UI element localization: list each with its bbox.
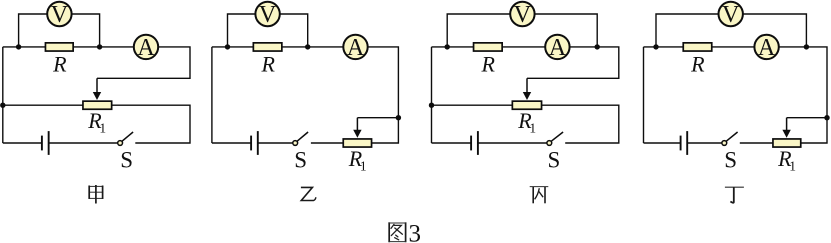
circuit 丁: battery: [681, 131, 688, 155]
circuit 甲: node - V right junction: [97, 44, 102, 49]
circuit 甲: battery: [42, 131, 49, 155]
circuit 丙: rheostat R1: [512, 101, 541, 135]
circuit 乙: wire - resistor row: [212, 46, 343, 48]
svg-text:S: S: [548, 148, 561, 173]
circuit 丁: ammeter A: [754, 35, 778, 61]
svg-text:V: V: [514, 2, 532, 28]
circuit 丙: ammeter A: [545, 35, 569, 61]
circuit 乙: ammeter A: [343, 35, 367, 61]
circuit 丁: rheostat wiper arrow: [782, 118, 790, 138]
circuit 乙: node - wiper tap junction: [396, 115, 401, 120]
circuit 丙: node - V right junction: [595, 44, 600, 49]
circuit 乙: voltmeter V: [255, 2, 279, 28]
circuit 丙: node - V left junction: [445, 44, 450, 49]
svg-text:A: A: [137, 35, 155, 61]
circuit 甲: voltmeter V: [47, 2, 71, 28]
circuit 甲: node - rheostat row left: [0, 103, 5, 108]
circuit 甲: wire - voltmeter right lead: [71, 14, 99, 47]
caption 图3: [388, 220, 421, 243]
circuit 丁: resistor R: [683, 43, 712, 76]
svg-text:1: 1: [99, 120, 106, 135]
circuit 丙: node - rheostat row left: [429, 103, 434, 108]
circuit 丙: wire - rheostat row right: [542, 105, 619, 143]
circuit 丁: switch S: [722, 132, 738, 173]
circuit 甲: rheostat wiper arrow: [93, 78, 101, 100]
circuit 乙: wire - voltmeter left lead: [228, 14, 257, 47]
circuit 丁: wire - switch to rheostat: [740, 142, 773, 144]
circuit 乙: wire - battery to switch: [258, 142, 293, 144]
circuit 乙: switch S: [293, 132, 308, 173]
circuit 丁: label 丁: [725, 187, 744, 203]
circuit 丙: wire - left vertical: [431, 47, 433, 143]
circuit 甲: wire - resistor row: [3, 46, 133, 48]
circuit 甲: switch S: [118, 132, 133, 173]
circuit 丁: wire - wiper tap: [787, 117, 827, 119]
circuit 甲: wire - rheostat row left: [3, 104, 83, 106]
circuit 乙: rheostat wiper arrow: [353, 118, 361, 138]
svg-text:R: R: [260, 51, 275, 76]
svg-text:S: S: [724, 148, 737, 173]
circuit 丁: wire - row right vertical: [779, 47, 827, 143]
circuit 丁: node - wiper tap junction: [824, 115, 829, 120]
circuit 丙: wire - row right to wiper: [527, 47, 619, 78]
circuit 甲: ammeter A: [134, 35, 158, 61]
circuit 甲: wire - voltmeter left lead: [19, 14, 48, 47]
svg-text:V: V: [51, 2, 69, 28]
circuit 甲: wire - ammeter to wiper (right top): [97, 47, 190, 78]
circuit 乙: rheostat R1: [343, 139, 371, 173]
circuit 甲: wire - bottom left: [3, 142, 42, 144]
circuit 乙: node - V right junction: [305, 44, 310, 49]
circuit 乙: wire - switch to rheostat: [311, 142, 343, 144]
circuit 丁: wire - voltmeter left lead: [656, 14, 719, 47]
circuit 丁: voltmeter V: [719, 2, 743, 28]
circuit 乙: wire - ammeter to right vertical: [368, 47, 398, 143]
circuit 乙: label 乙: [301, 187, 316, 200]
circuit 乙: wire - left vertical: [211, 47, 213, 143]
circuit 甲: label 甲: [89, 185, 104, 204]
circuit 丁: wire - voltmeter right lead: [743, 14, 807, 47]
circuit 丙: wire - bottom left: [432, 142, 472, 144]
svg-text:R: R: [690, 51, 705, 76]
svg-text:1: 1: [789, 158, 796, 173]
svg-text:1: 1: [360, 158, 367, 173]
circuit 丁: node - V right junction: [804, 44, 809, 49]
svg-text:S: S: [294, 148, 307, 173]
svg-text:V: V: [259, 2, 277, 28]
circuit 丙: wire - resistor row: [432, 46, 545, 48]
circuit 乙: wire - voltmeter right lead: [280, 14, 308, 47]
circuit 丙: rheostat wiper arrow: [523, 78, 531, 100]
svg-text:1: 1: [529, 120, 536, 135]
svg-text:V: V: [722, 2, 740, 28]
circuit 丁: wire - resistor row: [644, 46, 754, 48]
circuit 丙: wire - voltmeter left lead: [447, 14, 511, 47]
circuit 乙: wire - wiper tap: [357, 117, 398, 119]
circuit 甲: node - V left junction: [16, 44, 21, 49]
circuit 甲: rheostat R1: [83, 101, 112, 135]
circuit 丁: wire - bottom left: [644, 142, 681, 144]
svg-text:R: R: [480, 51, 495, 76]
svg-text:S: S: [120, 148, 133, 173]
circuit 丁: node - V left junction: [653, 44, 658, 49]
svg-text:R: R: [52, 51, 67, 76]
circuit 丙: wire - voltmeter right lead: [534, 14, 597, 47]
circuit 乙: wire - bottom left: [212, 142, 251, 144]
circuit 乙: battery: [251, 131, 258, 155]
circuit 丙: wire - battery to switch: [478, 142, 547, 144]
circuit 丙: switch S: [547, 132, 563, 173]
circuit 乙: node - V left junction: [225, 44, 230, 49]
circuit 丙: label 丙: [530, 187, 549, 204]
circuit 乙: resistor R: [253, 43, 282, 76]
circuit 丁: rheostat R1: [773, 139, 801, 173]
svg-text:3: 3: [409, 220, 422, 243]
circuit 丙: wire - rheostat row left: [432, 104, 512, 106]
circuit 丁: wire - battery to switch: [687, 142, 722, 144]
circuit 甲: wire - rheostat row right: [112, 105, 190, 143]
circuit 丙: resistor R: [474, 43, 503, 76]
circuit 甲: wire - battery to switch: [49, 142, 118, 144]
circuit 丁: wire - left vertical: [643, 47, 645, 143]
circuit 丙: voltmeter V: [510, 2, 534, 28]
svg-text:A: A: [549, 35, 567, 61]
circuit 甲: resistor R: [45, 43, 73, 76]
circuit 甲: wire - left vertical: [2, 47, 4, 143]
svg-text:A: A: [758, 35, 776, 61]
circuit 丙: battery: [471, 131, 478, 155]
svg-text:A: A: [347, 35, 365, 61]
